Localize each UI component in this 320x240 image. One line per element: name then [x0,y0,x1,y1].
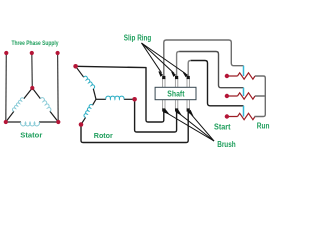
svg-text:Slip Ring: Slip Ring [124,34,152,43]
svg-text:Start: Start [214,122,231,131]
svg-text:Run: Run [257,121,270,130]
svg-text:Brush: Brush [217,140,236,149]
svg-text:Stator: Stator [20,131,42,140]
svg-text:Three Phase Supply: Three Phase Supply [12,40,59,47]
svg-text:Rotor: Rotor [94,131,113,140]
svg-text:Shaft: Shaft [167,89,184,98]
